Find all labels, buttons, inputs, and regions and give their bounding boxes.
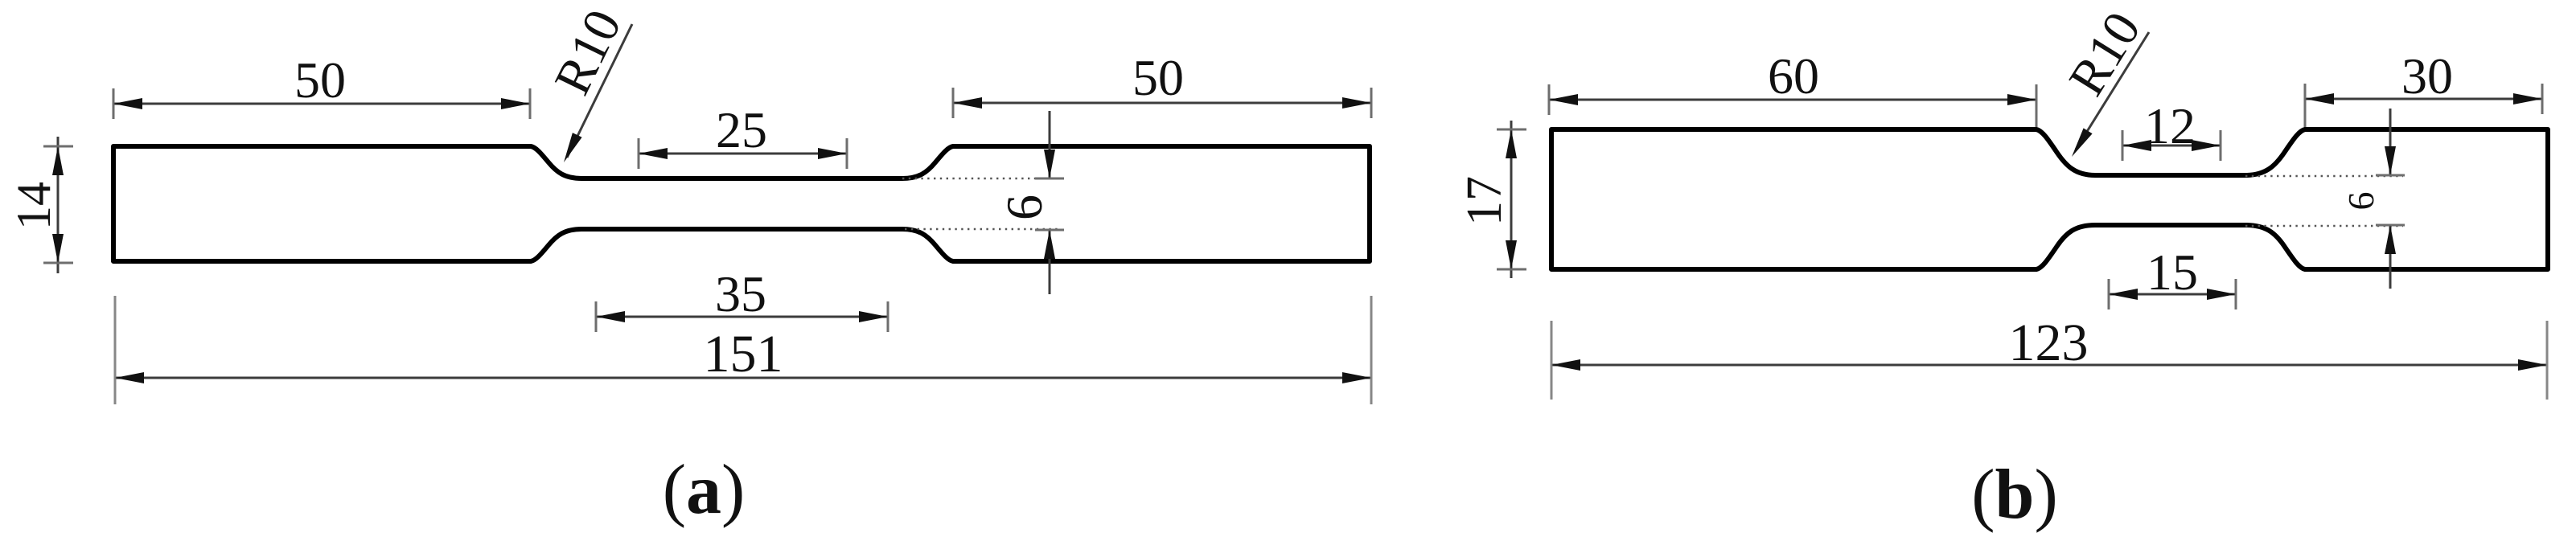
svg-text:14: 14 bbox=[7, 182, 60, 230]
svg-text:15: 15 bbox=[2147, 244, 2198, 301]
svg-text:6: 6 bbox=[996, 195, 1053, 220]
dotted gauge extension bottom (a) bbox=[905, 228, 1062, 231]
dimension 17 (b) bbox=[1510, 121, 1513, 278]
svg-text:(b): (b) bbox=[1971, 456, 2058, 534]
dimension 25 (a) bbox=[639, 153, 847, 155]
specimen outline (a) bbox=[113, 146, 1370, 261]
dotted gauge extension top (a) bbox=[902, 178, 1062, 180]
dimension 15 (b) bbox=[2109, 293, 2236, 296]
dimension 50 right (a) bbox=[953, 102, 1371, 105]
dimension 6 (a) bbox=[1049, 111, 1051, 178]
svg-text:30: 30 bbox=[2401, 47, 2453, 105]
svg-text:35: 35 bbox=[715, 265, 766, 322]
svg-text:50: 50 bbox=[294, 51, 346, 109]
leader R10 (b) bbox=[2076, 32, 2149, 150]
svg-text:6: 6 bbox=[2340, 192, 2381, 211]
svg-text:12: 12 bbox=[2144, 97, 2196, 154]
svg-text:25: 25 bbox=[716, 101, 767, 158]
svg-text:123: 123 bbox=[2009, 314, 2089, 372]
svg-text:151: 151 bbox=[704, 325, 783, 383]
dimension 123 (b) bbox=[1551, 364, 2547, 367]
dimension 35 (a) bbox=[596, 316, 888, 318]
svg-text:(a): (a) bbox=[663, 451, 746, 529]
svg-text:60: 60 bbox=[1768, 47, 1819, 105]
dotted gauge extension bottom (b) bbox=[2245, 225, 2403, 227]
dimension 12 (b) bbox=[2122, 145, 2221, 147]
dimension 6 (b) bbox=[2389, 109, 2392, 175]
dimension 30 (b) bbox=[2305, 98, 2542, 100]
dimension 14 (a) bbox=[57, 137, 60, 273]
svg-text:50: 50 bbox=[1132, 49, 1184, 106]
dimension 60 (b) bbox=[1549, 99, 2036, 101]
dimension 50 left (a) bbox=[113, 103, 530, 105]
dimension 151 (a) bbox=[115, 377, 1371, 379]
specimen outline (b) bbox=[1551, 129, 2548, 269]
svg-text:17: 17 bbox=[1457, 176, 1512, 226]
leader R10 (a) bbox=[567, 24, 632, 158]
dotted gauge extension top (b) bbox=[2245, 175, 2403, 178]
